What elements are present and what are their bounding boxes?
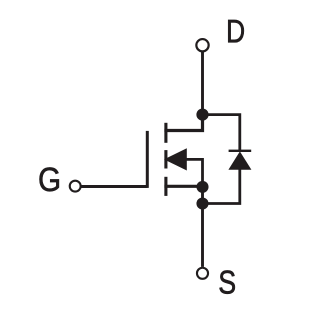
junction dot: source node lower (diode anode) xyxy=(196,197,208,209)
body diode anode triangle xyxy=(228,151,251,169)
terminal circle G xyxy=(70,181,81,192)
wire: drain node right and down to diode cathode xyxy=(203,115,240,152)
wire: diode anode down and left to source node xyxy=(203,168,240,204)
wire: G terminal to gate electrode xyxy=(81,185,147,188)
junction dot: drain node xyxy=(196,109,208,121)
MOSFET body arrow pointing at channel xyxy=(164,148,187,170)
wire: D terminal down to drain node xyxy=(201,52,204,115)
body diode cathode bar xyxy=(229,150,252,152)
MOSFET gate electrode bar xyxy=(146,131,149,188)
wire: source stub from channel to source node xyxy=(164,185,202,188)
MOSFET channel segment middle (body) xyxy=(164,150,167,168)
label D xyxy=(228,20,244,42)
MOSFET channel segment top (drain) xyxy=(164,123,167,143)
junction dot: source node upper (MOSFET source/body) xyxy=(196,181,208,193)
label G xyxy=(40,167,59,191)
terminal circle S xyxy=(197,268,208,279)
wire: source node down to S terminal xyxy=(201,187,204,267)
terminal circle D xyxy=(196,39,208,51)
MOSFET channel segment bottom (source) xyxy=(164,177,167,196)
wire: drain stub from channel to drain node xyxy=(164,115,202,131)
label S xyxy=(220,271,235,294)
wire: body arrow to source node xyxy=(186,159,203,187)
